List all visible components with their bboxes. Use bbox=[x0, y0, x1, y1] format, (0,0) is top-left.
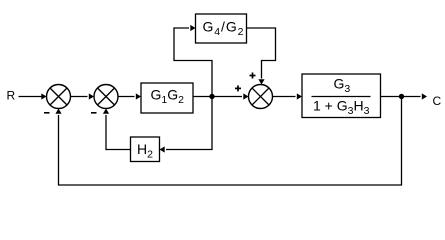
wire G4/G2 to summer S3 top bbox=[247, 28, 276, 79]
summing junction S1 bbox=[47, 85, 71, 109]
wire S2 to block G1G2 bbox=[118, 96, 135, 98]
wire R to summer S1 bbox=[19, 96, 43, 98]
svg-text:C: C bbox=[433, 94, 442, 108]
summing junction S3 bbox=[249, 85, 273, 109]
wire G3 to output C bbox=[381, 96, 421, 98]
wire H2 output up to S2 bottom bbox=[106, 115, 131, 150]
node junction at output bbox=[399, 94, 404, 99]
wire tap up from node to block G4/G2 bbox=[174, 28, 212, 97]
block H2 bbox=[131, 137, 160, 162]
summing junction S2 bbox=[94, 85, 118, 109]
wire G1G2 to summer S3 bbox=[193, 96, 242, 98]
block G4/G2 bbox=[196, 14, 247, 43]
minus sign at S1 bottom input bbox=[44, 112, 50, 114]
wire outer feedback from output node to S1 bottom bbox=[59, 97, 402, 186]
wire inner feedback from node down to H2 bbox=[166, 97, 212, 150]
node junction after G1G2 bbox=[209, 94, 214, 99]
wire S3 to block G3 bbox=[273, 96, 296, 98]
wire S1 to S2 bbox=[71, 96, 88, 98]
svg-text:R: R bbox=[7, 89, 16, 103]
plus sign at S3 top input bbox=[250, 73, 256, 79]
minus sign at S2 bottom input bbox=[91, 112, 97, 114]
block G3/(1+G3H3) bbox=[302, 74, 381, 118]
block G1G2 bbox=[141, 83, 193, 113]
plus sign at S3 left input bbox=[235, 85, 241, 91]
